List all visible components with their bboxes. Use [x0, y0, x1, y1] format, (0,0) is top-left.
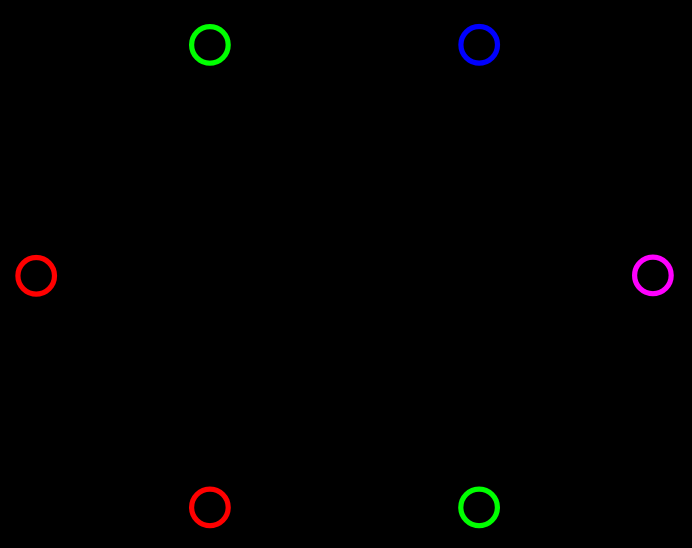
- oxygen atom O5 (bottom-left, red): [192, 489, 229, 526]
- oxygen atom O1 (top-left, green): [192, 27, 229, 64]
- oxygen atom O6 (bottom-right, green): [461, 489, 498, 526]
- oxygen atom O3 (middle-left, red): [18, 258, 55, 295]
- oxygen atom O2 (top-right, blue): [461, 27, 498, 64]
- oxygen atom O4 (middle-right, magenta): [635, 257, 672, 294]
